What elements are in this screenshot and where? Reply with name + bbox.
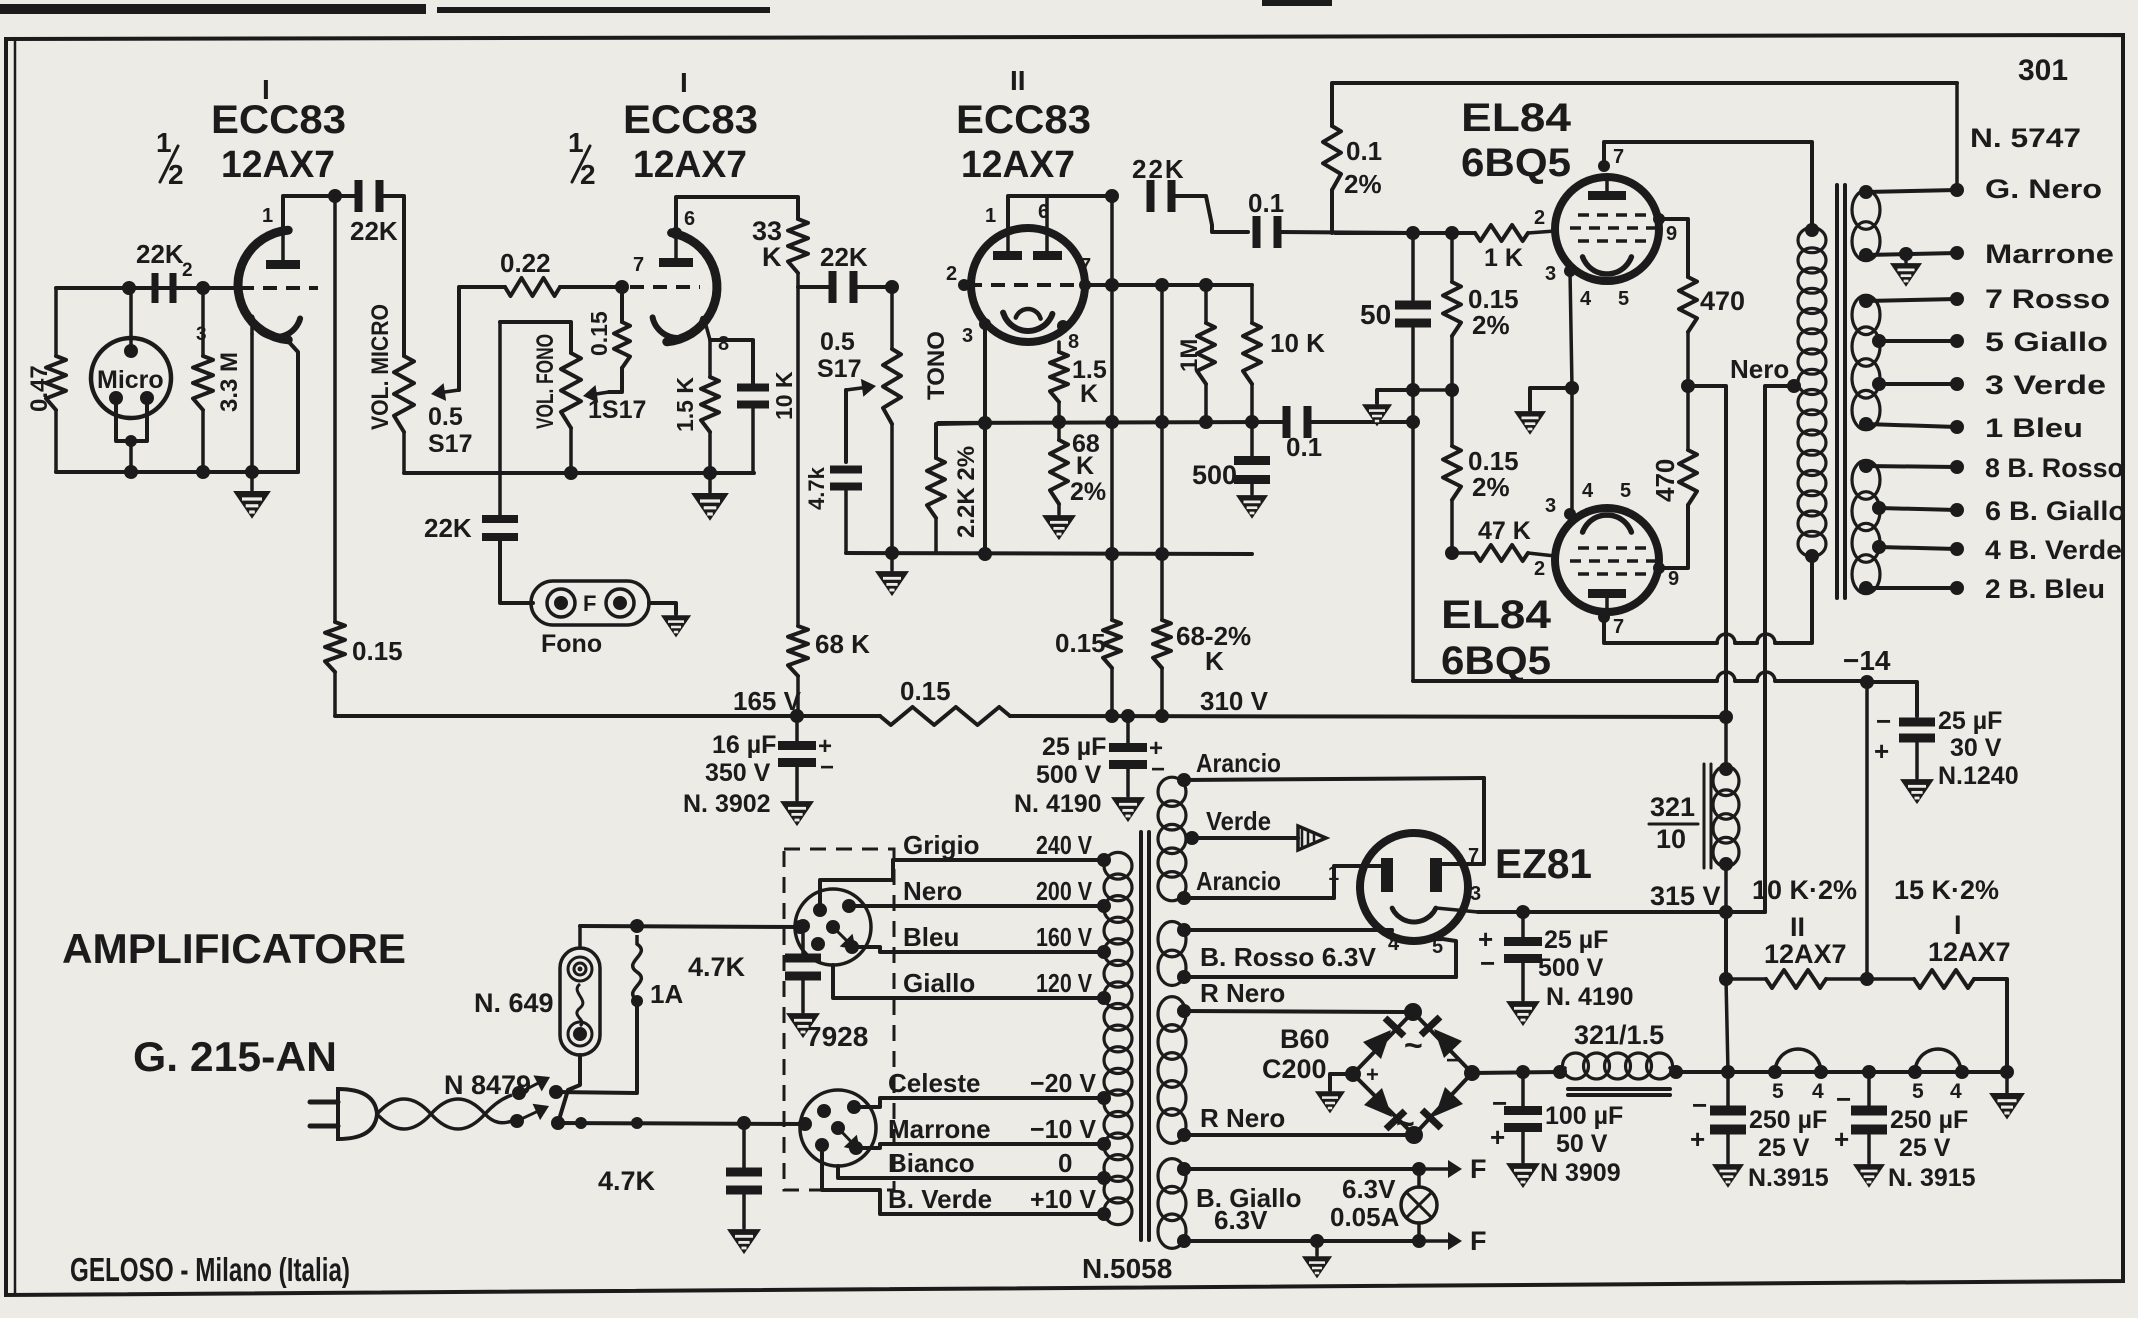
- svg-text:~: ~: [1404, 1027, 1423, 1063]
- wire mid bottom bus: [404, 471, 754, 475]
- svg-text:3: 3: [1545, 495, 1556, 517]
- svg-text:N. 3902: N. 3902: [683, 790, 771, 818]
- wire Arancio top: [1184, 778, 1484, 780]
- svg-text:10 K: 10 K: [771, 371, 797, 420]
- svg-text:Marrone: Marrone: [888, 1114, 991, 1144]
- selector lower wiper: [838, 1128, 850, 1141]
- choke 321/10 core: [1703, 764, 1706, 868]
- svg-text:2: 2: [1534, 558, 1545, 580]
- wire pin7 bus: [1085, 283, 1252, 287]
- svg-text:12AX7: 12AX7: [961, 144, 1075, 186]
- svg-text:68 K: 68 K: [815, 629, 870, 659]
- wire switch bottom to selector: [558, 1123, 805, 1124]
- svg-text:II: II: [1010, 65, 1026, 96]
- bridge rectifier B60 C200 diamond: [1353, 1012, 1472, 1135]
- resistor 1M: [1204, 285, 1208, 323]
- choke 321/1.5 core: [1568, 1087, 1670, 1091]
- svg-text:1: 1: [985, 205, 996, 227]
- wire node to cap: [798, 285, 832, 289]
- node fono pot bottom: [564, 466, 578, 480]
- ground 4.7K second: [788, 1014, 819, 1037]
- wire 470 lower up: [1686, 386, 1690, 450]
- wire V2 plate circuit: [676, 197, 798, 233]
- ground 250uF first: [1714, 1165, 1743, 1186]
- svg-text:25 µF: 25 µF: [1938, 707, 2002, 735]
- tube EZ81 envelope: [1360, 833, 1468, 941]
- resistor 2.2K 2pc: [936, 423, 985, 458]
- wire V1 cathode down: [250, 334, 254, 472]
- capacitor 25uF 500V second: [1521, 912, 1525, 938]
- wire v1452 bottom: [1450, 500, 1454, 553]
- ground mid bus: [708, 473, 712, 492]
- wire primary tap Marrone: [893, 1142, 1104, 1146]
- wire heater EZ81 a: [1184, 928, 1392, 932]
- bridge diode NW: [1363, 1030, 1391, 1059]
- node bus cathode: [245, 465, 259, 479]
- svg-text:5: 5: [1912, 1080, 1924, 1103]
- wire primary tap Giallo: [893, 996, 1104, 1000]
- tube EL84 I cathode: [1583, 257, 1632, 274]
- arrow F top: [1419, 1167, 1448, 1171]
- wire EL84I screen: [1659, 219, 1688, 277]
- svg-text:I: I: [1954, 910, 1962, 940]
- wire 0.1b out: [1310, 420, 1413, 424]
- svg-text:3: 3: [962, 325, 973, 347]
- svg-text:2%: 2%: [1344, 169, 1382, 199]
- selector dashed box: [784, 849, 894, 1190]
- svg-text:VOL. MICRO: VOL. MICRO: [367, 304, 394, 430]
- svg-text:0.47: 0.47: [26, 365, 53, 412]
- mains plug: [310, 1100, 338, 1105]
- micro pin top: [124, 344, 138, 358]
- svg-text:1: 1: [262, 205, 273, 227]
- wire fuse to selector: [580, 926, 800, 927]
- svg-text:500: 500: [1192, 460, 1237, 490]
- node plate wire: [1105, 189, 1119, 203]
- ground V1 bus: [250, 472, 254, 490]
- wire 8 B.Rosso: [1866, 466, 1957, 467]
- svg-text:S17: S17: [428, 430, 472, 458]
- wire R Nero bottom: [1184, 1133, 1412, 1137]
- wire fuse holder top lead: [578, 926, 582, 948]
- wire fono feed: [498, 322, 502, 517]
- fuse 1A: [633, 935, 642, 1000]
- svg-text:−: −: [1692, 1090, 1707, 1120]
- capacitor 22K grid: [152, 273, 159, 303]
- svg-text:9: 9: [1666, 223, 1677, 245]
- wire v1452 top: [1450, 233, 1454, 282]
- svg-text:Giallo: Giallo: [903, 968, 975, 998]
- svg-text:1: 1: [156, 127, 172, 158]
- wire 6 B.Giallo: [1879, 508, 1957, 510]
- svg-text:7928: 7928: [806, 1021, 868, 1052]
- svg-text:Fono: Fono: [541, 630, 602, 658]
- ground 500: [1238, 496, 1267, 517]
- svg-text:22K: 22K: [1132, 154, 1186, 184]
- svg-text:−: −: [1492, 1088, 1507, 1118]
- resistor 3.3M: [201, 288, 205, 356]
- node 315V choke: [1719, 905, 1733, 919]
- svg-text:310 V: 310 V: [1200, 686, 1269, 716]
- svg-text:ECC83: ECC83: [623, 98, 758, 142]
- tube V1 cathode: [252, 317, 301, 337]
- node hr 1821: [1814, 1065, 1828, 1079]
- resistor 15K 2pc: [1867, 977, 1914, 981]
- resistor 1K: [1475, 225, 1528, 241]
- bridge diode SE: [1435, 1087, 1463, 1116]
- node V2 plate: [670, 227, 682, 239]
- power transformer core: [1139, 832, 1143, 1240]
- node pin2 V3: [958, 279, 970, 291]
- svg-text:4: 4: [1582, 480, 1594, 502]
- tube V2 plate: [659, 258, 693, 267]
- node 1206-422: [1199, 415, 1213, 429]
- capacitor 10K V2: [710, 340, 753, 384]
- svg-text:470: 470: [1650, 459, 1680, 502]
- potentiometer TONO: [890, 287, 894, 349]
- svg-text:50 V: 50 V: [1556, 1130, 1608, 1158]
- node pin7 EL84I: [1598, 160, 1610, 172]
- svg-text:N 3909: N 3909: [1540, 1159, 1621, 1187]
- output transformer secondary B: [1852, 295, 1880, 334]
- svg-text:K: K: [1080, 380, 1098, 408]
- wire cap to V3 grid node: [856, 285, 892, 289]
- wire switch top via 1A: [556, 1001, 637, 1093]
- svg-text:7: 7: [633, 254, 644, 276]
- ground heater: [1315, 1241, 1319, 1255]
- node 1059-422: [1052, 415, 1066, 429]
- node hr 1915: [1908, 1065, 1922, 1079]
- mains cord twisted: [377, 1095, 512, 1129]
- svg-text:50: 50: [1360, 299, 1391, 330]
- wire 0.1 to EL84 grid wire: [1280, 232, 1410, 233]
- svg-text:7 Rosso: 7 Rosso: [1985, 284, 2110, 314]
- wiper VOL.FONO arrow: [597, 392, 609, 394]
- tube EL84 I plate: [1588, 191, 1626, 200]
- heater jumper II: [1775, 1049, 1821, 1072]
- svg-text:−14: −14: [1843, 645, 1891, 676]
- wiper VOL.MICRO: [445, 390, 459, 392]
- resistor 0.22: [505, 278, 560, 296]
- micro pin leads: [116, 404, 147, 441]
- tube V2 envelope (1/2 ECC83): [667, 233, 717, 342]
- node hr 2007: [2000, 1065, 2014, 1079]
- node pin3 EL84I: [1564, 265, 1576, 277]
- output transformer core: [1835, 185, 1839, 598]
- capacitor 22K anode: [355, 180, 363, 212]
- wire 4 B.Verde: [1879, 547, 1957, 549]
- svg-text:12AX7: 12AX7: [221, 144, 335, 186]
- output transformer secondary A: [1852, 190, 1880, 229]
- node bias mid: [1860, 972, 1874, 986]
- wire grid bus V1: [56, 286, 240, 290]
- capacitor 50: [1395, 301, 1431, 310]
- svg-text:2: 2: [946, 263, 957, 285]
- wire primary tap Nero: [893, 904, 1104, 908]
- svg-text:6.3V: 6.3V: [1342, 1174, 1396, 1204]
- node 1206-285: [1199, 278, 1213, 292]
- tube EL84 II cathode: [1583, 515, 1632, 532]
- wire 33K to node: [796, 273, 800, 287]
- svg-text:25 V: 25 V: [1899, 1134, 1951, 1162]
- wire EL84II anode: [1604, 617, 1717, 643]
- node rail 68K: [790, 709, 804, 723]
- wire 0.22 to grid node: [560, 285, 622, 289]
- svg-text:I: I: [680, 67, 688, 98]
- node 1162-422: [1155, 415, 1169, 429]
- ground 250uF second: [1855, 1165, 1884, 1186]
- micro pin right: [140, 391, 154, 405]
- node pin7 V3: [1079, 279, 1091, 291]
- ground bridge: [1330, 1074, 1353, 1090]
- switch pole 2: [510, 1114, 524, 1128]
- node rail 0.15: [1105, 709, 1119, 723]
- svg-text:160 V: 160 V: [1036, 922, 1093, 952]
- capacitor 100uF: [1521, 1072, 1525, 1106]
- svg-text:GELOSO - Milano (Italia): GELOSO - Milano (Italia): [70, 1251, 350, 1288]
- svg-text:VOL. FONO: VOL. FONO: [532, 334, 559, 429]
- svg-text:B. Verde: B. Verde: [888, 1184, 992, 1214]
- svg-text:0.5: 0.5: [820, 328, 855, 356]
- node pin9 EL84I: [1653, 213, 1665, 225]
- svg-text:4: 4: [1812, 1080, 1824, 1103]
- wire primary tap Celeste: [893, 1096, 1104, 1100]
- svg-text:4: 4: [1950, 1080, 1962, 1103]
- node rail end: [1719, 710, 1733, 724]
- power transformer secondary 6.3a: [1158, 922, 1186, 957]
- node 1112-285: [1105, 278, 1119, 292]
- svg-text:5: 5: [1772, 1080, 1784, 1103]
- svg-text:5 Giallo: 5 Giallo: [1985, 327, 2108, 357]
- ground fono: [649, 603, 676, 614]
- svg-text:1 Bleu: 1 Bleu: [1985, 413, 2083, 443]
- tube EL84 I grids dashed: [1578, 213, 1648, 217]
- tube EZ81 cathode: [1392, 908, 1436, 922]
- svg-text:F: F: [1470, 1154, 1487, 1184]
- choke 321/1.5 coil: [1563, 1053, 1589, 1079]
- svg-text:22K: 22K: [424, 513, 472, 543]
- wiper TONO: [844, 390, 848, 462]
- output transformer secondary C: [1852, 460, 1880, 499]
- selector circle lower: [800, 1090, 876, 1166]
- node bus 3.3M: [196, 465, 210, 479]
- tube V3 plate B: [1033, 251, 1062, 260]
- resistor 68-2pc K: [1160, 554, 1164, 620]
- svg-text:165 V: 165 V: [733, 686, 802, 716]
- svg-text:5: 5: [1618, 288, 1629, 310]
- tube EL84 II plate: [1588, 589, 1626, 598]
- resistor 0.15 2pc upper: [1443, 282, 1461, 336]
- potentiometer VOL.MICRO: [394, 356, 414, 432]
- svg-text:N.5058: N.5058: [1082, 1253, 1172, 1284]
- svg-text:0.15: 0.15: [1055, 628, 1106, 658]
- svg-text:1M: 1M: [1176, 339, 1203, 372]
- capacitor 22K interstage: [829, 271, 837, 303]
- svg-text:0: 0: [1058, 1148, 1072, 1178]
- wire primary tap Grigio: [893, 858, 1104, 862]
- svg-text:500 V: 500 V: [1036, 761, 1102, 789]
- tube V3 envelope (ECC83 II): [971, 228, 1085, 342]
- svg-text:−: −: [820, 754, 834, 781]
- capacitor 500: [1250, 422, 1254, 458]
- svg-text:K: K: [1076, 452, 1094, 480]
- ground 25uF 500V: [1113, 798, 1144, 821]
- wire R Nero top: [1184, 1011, 1410, 1012]
- wire EL84I cathode: [1570, 271, 1572, 388]
- svg-text:F: F: [583, 591, 596, 616]
- bridge diode NE: [1434, 1029, 1462, 1058]
- svg-text:+: +: [1834, 1124, 1849, 1154]
- tube V3 cathode: [1003, 313, 1052, 331]
- capacitor 0.1 first: [1253, 216, 1261, 248]
- svg-text:6: 6: [684, 208, 695, 230]
- resistor 0.15 fono: [620, 287, 624, 322]
- wire 5 Giallo: [1879, 339, 1957, 343]
- resistor 0.15 mid: [1110, 554, 1114, 620]
- node g1452: [1445, 226, 1459, 240]
- wire -14 down: [1865, 682, 1869, 979]
- wire EZ81 pin1 feed: [1334, 866, 1380, 898]
- wire heater rail: [1676, 1070, 2007, 1074]
- svg-text:8: 8: [718, 333, 729, 355]
- node 1413-390: [1406, 383, 1420, 397]
- svg-text:N. 649: N. 649: [474, 988, 554, 1018]
- svg-text:6.3V: 6.3V: [1214, 1205, 1268, 1235]
- svg-text:Micro: Micro: [97, 366, 164, 394]
- selector upper pins: [813, 903, 827, 917]
- wire fuse holder bottom lead: [558, 1055, 580, 1123]
- svg-text:Celeste: Celeste: [888, 1068, 981, 1098]
- svg-text:7: 7: [1080, 255, 1091, 277]
- wire 22K jog to 0.1: [1174, 196, 1248, 232]
- wire hr1728 up: [1726, 979, 1728, 1072]
- node g1413: [1406, 226, 1420, 240]
- resistor 68K 2pc: [1057, 422, 1061, 440]
- svg-text:4: 4: [1580, 288, 1592, 310]
- svg-text:1: 1: [568, 127, 584, 158]
- node V1 anode: [328, 189, 342, 203]
- wire 470 upper down: [1686, 332, 1690, 386]
- svg-text:1.5 K: 1.5 K: [672, 377, 698, 432]
- node 470 mid: [1681, 379, 1695, 393]
- node grid left: [122, 281, 136, 295]
- svg-text:2.2K 2%: 2.2K 2%: [953, 446, 980, 538]
- svg-text:−: −: [1446, 1047, 1460, 1074]
- svg-text:4.7k: 4.7k: [804, 466, 829, 510]
- svg-text:250 µF: 250 µF: [1890, 1106, 1968, 1134]
- wire primary tap Bleu: [893, 950, 1104, 954]
- svg-text:8: 8: [1068, 331, 1079, 353]
- resistor 10K 2pc: [1726, 977, 1766, 981]
- power transformer secondary HV: [1158, 777, 1186, 806]
- node g1453-553: [1445, 546, 1459, 560]
- tube EL84 I envelope: [1555, 177, 1659, 281]
- wire V3 plates top: [1008, 196, 1112, 231]
- ground 25uF second: [1508, 1002, 1539, 1025]
- svg-text:N.1240: N.1240: [1938, 762, 2019, 790]
- selector upper wiper: [833, 927, 846, 940]
- svg-text:Bianco: Bianco: [888, 1148, 975, 1178]
- wire primary tap Bianco: [893, 1176, 1104, 1180]
- node 1452-390: [1445, 383, 1459, 397]
- node tono bottom: [885, 546, 899, 560]
- selector lower pins: [817, 1104, 831, 1118]
- node 1112-554: [1105, 547, 1119, 561]
- wire 315V rail: [1478, 910, 1765, 914]
- svg-text:321: 321: [1650, 792, 1695, 822]
- heater jumper I: [1915, 1049, 1961, 1072]
- svg-text:6BQ5: 6BQ5: [1441, 639, 1551, 683]
- svg-text:12AX7: 12AX7: [1928, 937, 2011, 967]
- svg-text:Arancio: Arancio: [1196, 748, 1281, 778]
- capacitor 4.7K second: [801, 926, 805, 954]
- svg-text:12AX7: 12AX7: [633, 144, 747, 186]
- wire B+ rail: [335, 714, 880, 718]
- arrow Verde: [1298, 826, 1326, 850]
- node choke bottom: [1719, 857, 1733, 871]
- svg-text:EZ81: EZ81: [1495, 840, 1592, 887]
- svg-text:N. 3915: N. 3915: [1888, 1164, 1976, 1192]
- svg-text:+: +: [1690, 1124, 1705, 1154]
- tube EL84 II grids dashed: [1578, 546, 1648, 550]
- node 1162-554: [1155, 547, 1169, 561]
- wire feedback down: [1955, 83, 1959, 190]
- tube V3 plate A: [993, 251, 1022, 260]
- resistor 1.5K V3: [1057, 342, 1061, 352]
- svg-text:2%: 2%: [1472, 472, 1510, 502]
- ground 68K 2pc: [1044, 516, 1075, 539]
- svg-text:II: II: [1790, 912, 1805, 942]
- resistor 0.15 left: [325, 622, 345, 672]
- node 1413-422: [1406, 415, 1420, 429]
- tube V1 envelope (1/2 ECC83): [238, 230, 288, 340]
- wire V1 envelope lead: [288, 341, 298, 472]
- resistor 470 lower: [1679, 450, 1697, 505]
- svg-text:9: 9: [1668, 568, 1679, 590]
- wire cap to jack: [500, 538, 533, 603]
- wire EZ81 pin7 feed: [1443, 778, 1484, 864]
- svg-text:10 K: 10 K: [1270, 328, 1325, 358]
- wire EL84I anode: [1604, 142, 1812, 230]
- svg-text:N. 4190: N. 4190: [1014, 790, 1102, 818]
- wire choke to 315V: [1724, 864, 1728, 912]
- ground y553: [890, 553, 894, 570]
- node hr 1962: [1955, 1065, 1969, 1079]
- svg-text:Verde: Verde: [1206, 806, 1271, 836]
- wire V1 plate to node: [283, 196, 356, 232]
- svg-text:4 B. Verde: 4 B. Verde: [1985, 535, 2122, 565]
- svg-text:240 V: 240 V: [1036, 830, 1093, 860]
- svg-text:Marrone: Marrone: [1985, 239, 2114, 269]
- svg-text:R Nero: R Nero: [1200, 1103, 1285, 1133]
- svg-text:EL84: EL84: [1441, 593, 1552, 637]
- node hr 1728: [1721, 1065, 1735, 1079]
- svg-text:−20 V: −20 V: [1030, 1068, 1097, 1098]
- svg-text:4: 4: [1388, 933, 1400, 955]
- svg-text:+: +: [1490, 1122, 1505, 1152]
- svg-text:0.1: 0.1: [1346, 136, 1382, 166]
- tube EZ81 plate right: [1430, 858, 1442, 892]
- svg-text:2%: 2%: [1070, 478, 1106, 506]
- node rail 68-2: [1155, 709, 1169, 723]
- capacitor 250uF first: [1726, 1072, 1730, 1106]
- capacitor 25uF 30V: [1867, 682, 1917, 716]
- svg-text:−10 V: −10 V: [1030, 1114, 1097, 1144]
- micro pin left: [109, 391, 123, 405]
- svg-text:Nero: Nero: [903, 876, 962, 906]
- svg-text:Nero: Nero: [1730, 354, 1789, 384]
- node bus micro: [124, 465, 138, 479]
